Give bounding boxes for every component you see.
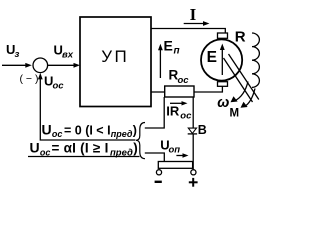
svg-text:УП: УП (101, 47, 129, 66)
svg-text:ос: ос (52, 129, 63, 139)
svg-text:ос: ос (178, 75, 190, 86)
svg-text:п: п (174, 46, 180, 57)
svg-text:U: U (30, 140, 40, 156)
svg-text:М: М (230, 108, 240, 120)
svg-text:з: з (15, 49, 20, 60)
svg-text:= αI (I ≥ I: = αI (I ≥ I (52, 141, 109, 156)
svg-text:ос: ос (40, 147, 51, 157)
svg-text:ос: ос (180, 111, 192, 122)
svg-text:E: E (207, 49, 217, 66)
svg-text:U: U (42, 121, 52, 137)
svg-text:IR: IR (166, 104, 180, 119)
svg-text:вх: вх (62, 50, 74, 61)
svg-text:В: В (198, 123, 207, 137)
svg-text:ω: ω (217, 95, 229, 111)
svg-text:): ) (133, 141, 138, 156)
svg-text:R: R (235, 29, 246, 46)
svg-text:= 0 (I < I: = 0 (I < I (64, 123, 111, 137)
svg-text:): ) (133, 123, 137, 137)
svg-text:пред: пред (110, 147, 133, 158)
svg-text:I: I (190, 5, 197, 24)
svg-text:ос: ос (53, 81, 65, 92)
svg-text:оп: оп (169, 145, 181, 156)
svg-text:E: E (164, 38, 173, 54)
svg-text:пред: пред (111, 129, 133, 139)
svg-text:( − ): ( − ) (20, 73, 39, 85)
